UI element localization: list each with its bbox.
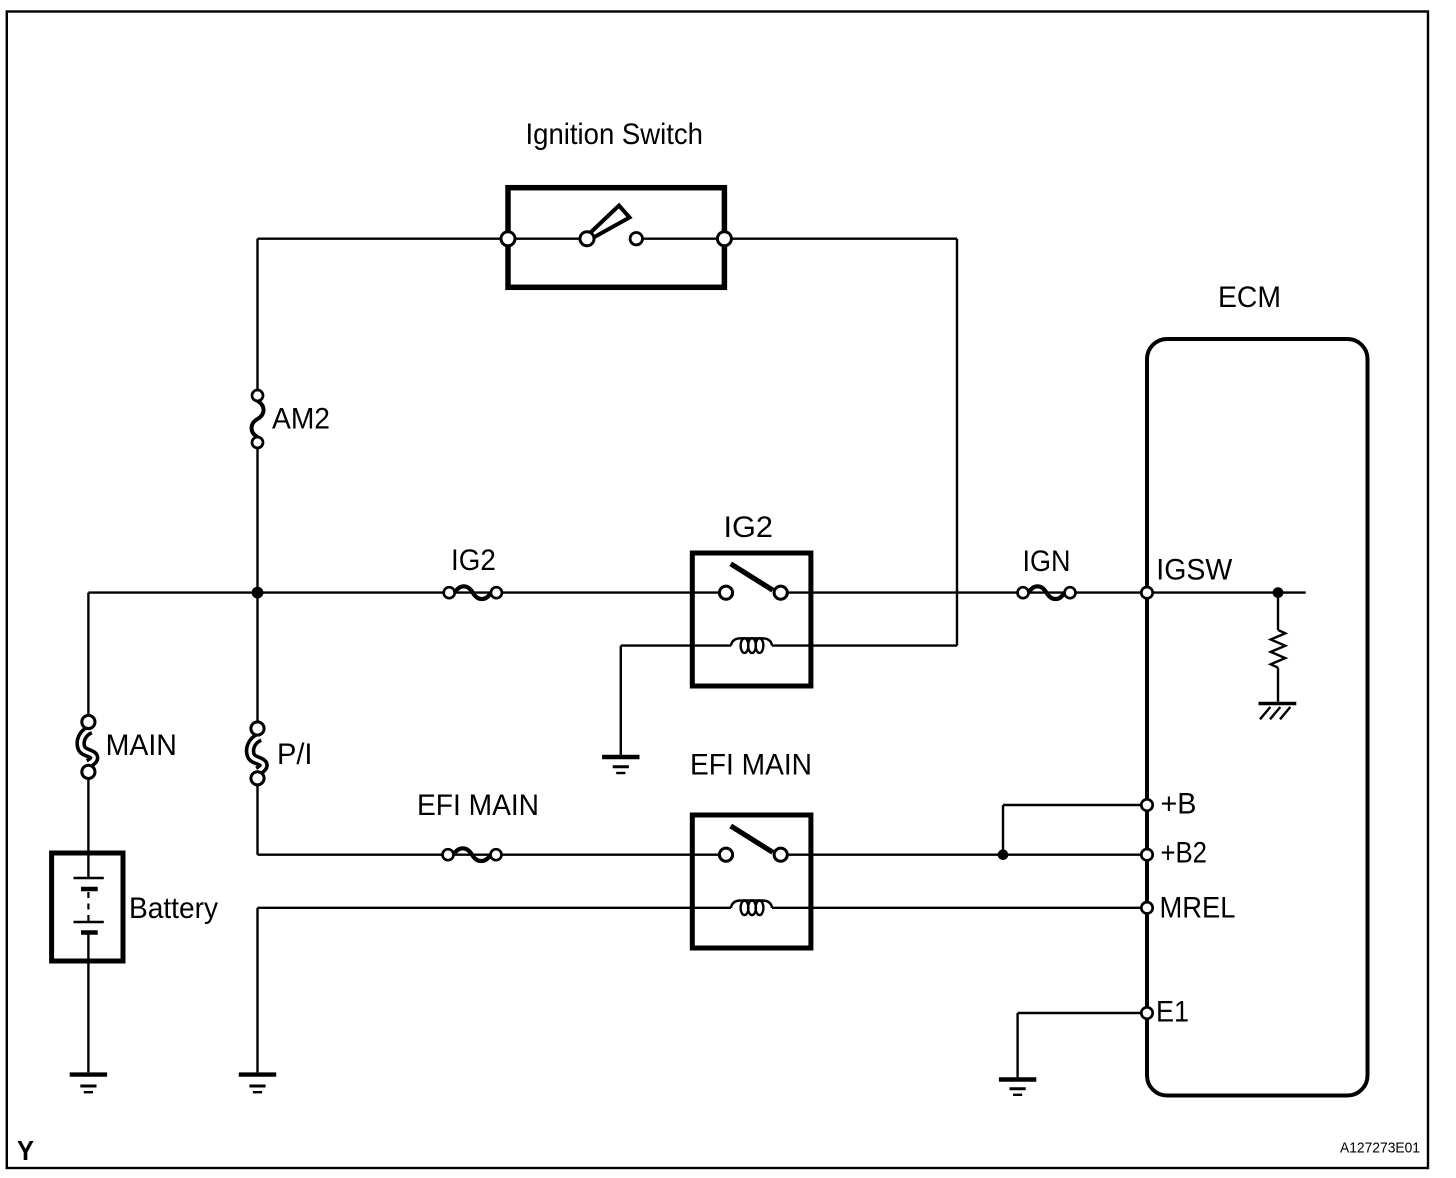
svg-text:IG2: IG2 (451, 544, 496, 577)
svg-text:A127273E01: A127273E01 (1340, 1140, 1420, 1157)
svg-text:ECM: ECM (1218, 281, 1281, 314)
svg-text:IGN: IGN (1023, 545, 1071, 578)
svg-text:+B: +B (1161, 788, 1197, 821)
svg-text:MREL: MREL (1160, 891, 1236, 924)
svg-text:IGSW: IGSW (1156, 554, 1233, 587)
svg-text:IG2: IG2 (724, 511, 774, 544)
svg-text:Y: Y (17, 1135, 34, 1166)
svg-text:AM2: AM2 (272, 403, 330, 436)
svg-text:E1: E1 (1156, 995, 1189, 1028)
svg-text:EFI MAIN: EFI MAIN (690, 749, 812, 782)
svg-text:P/I: P/I (277, 738, 313, 771)
svg-text:MAIN: MAIN (106, 729, 177, 762)
svg-text:Ignition Switch: Ignition Switch (526, 118, 704, 151)
svg-text:EFI MAIN: EFI MAIN (417, 789, 539, 822)
svg-text:+B2: +B2 (1161, 837, 1208, 870)
svg-text:Battery: Battery (129, 892, 218, 925)
